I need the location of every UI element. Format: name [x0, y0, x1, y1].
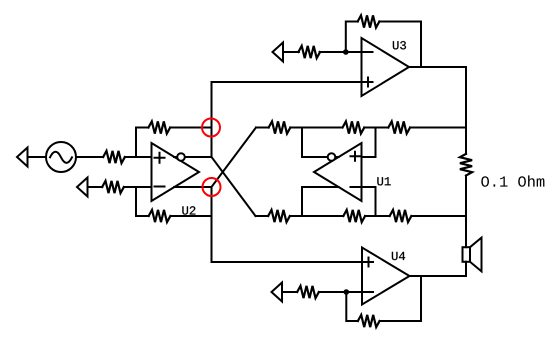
junction dot: [343, 49, 349, 55]
wire: [379, 22, 421, 68]
resistor Rin+: [103, 151, 125, 163]
wire: [212, 81, 362, 83]
wire: [302, 128, 328, 158]
label U4: [392, 252, 405, 260]
wire: [290, 127, 342, 129]
wire: [319, 291, 362, 293]
wire: [302, 187, 339, 216]
wire: [28, 156, 47, 158]
label U2: [182, 206, 195, 214]
input port P3: [273, 43, 284, 62]
wire: [290, 215, 343, 217]
wire: [283, 51, 299, 53]
resistor Rin-: [102, 181, 124, 193]
wire: [362, 128, 376, 158]
op-amp U2: [152, 143, 200, 201]
resistor Rfb3: [358, 15, 380, 27]
label 0.1 Ohm: [481, 175, 544, 186]
red node marker 1: [202, 119, 220, 137]
wire: [212, 261, 363, 263]
label U1: [377, 177, 390, 185]
label U3: [393, 41, 406, 49]
wire: [346, 22, 358, 53]
resistor Rfb1a: [343, 121, 365, 133]
wire: [174, 156, 212, 158]
wire: [76, 156, 103, 158]
junction dot: [344, 289, 350, 295]
resistor R5: [269, 121, 291, 133]
wire: [411, 215, 466, 217]
wire: [410, 127, 466, 129]
resistor Rfb1b: [343, 210, 365, 222]
wire: [362, 187, 376, 216]
op-amp U1: [314, 143, 362, 201]
wire: [320, 51, 362, 53]
input port P2: [77, 178, 88, 197]
resistor Rfb4: [358, 315, 380, 327]
wire: [125, 156, 152, 158]
resistor R13: [297, 286, 319, 298]
wire: [335, 156, 338, 158]
input port P1: [17, 148, 28, 167]
voltage source V1: [46, 142, 76, 172]
wire: [465, 176, 467, 248]
inverting output bubble of U1: [328, 153, 336, 161]
wire: [256, 127, 269, 129]
input port P4: [272, 283, 283, 302]
wire: [136, 187, 149, 216]
resistor Rfb2b: [149, 210, 171, 222]
op-amp U4: [362, 248, 410, 305]
wire: [410, 262, 467, 276]
wire: [465, 67, 467, 154]
resistor R6: [268, 210, 290, 222]
wire: [282, 291, 297, 293]
wire (cross to bottom row): [212, 157, 256, 216]
wire: [346, 292, 358, 321]
wire: [409, 66, 466, 68]
wire: [174, 186, 211, 188]
wire: [380, 276, 421, 321]
wire (cross to top row): [212, 128, 257, 188]
inverting output bubble of U2: [177, 153, 185, 161]
wire: [170, 127, 211, 129]
wire: [124, 186, 152, 188]
node A vertical: [211, 82, 213, 157]
node B vertical: [211, 187, 213, 262]
wire: [364, 127, 388, 129]
wire: [170, 215, 211, 217]
wire: [256, 215, 269, 217]
resistor R10: [390, 210, 412, 222]
red node marker 2: [203, 178, 221, 196]
wire: [88, 186, 103, 188]
resistor R11: [298, 46, 320, 58]
wire: [136, 128, 149, 158]
resistor Rsense 0.1 Ohm: [460, 154, 472, 176]
speaker LS1: [463, 238, 482, 272]
wire: [365, 215, 390, 217]
op-amp U3: [362, 38, 410, 96]
resistor Rfb2a: [148, 121, 170, 133]
resistor R9: [388, 121, 410, 133]
